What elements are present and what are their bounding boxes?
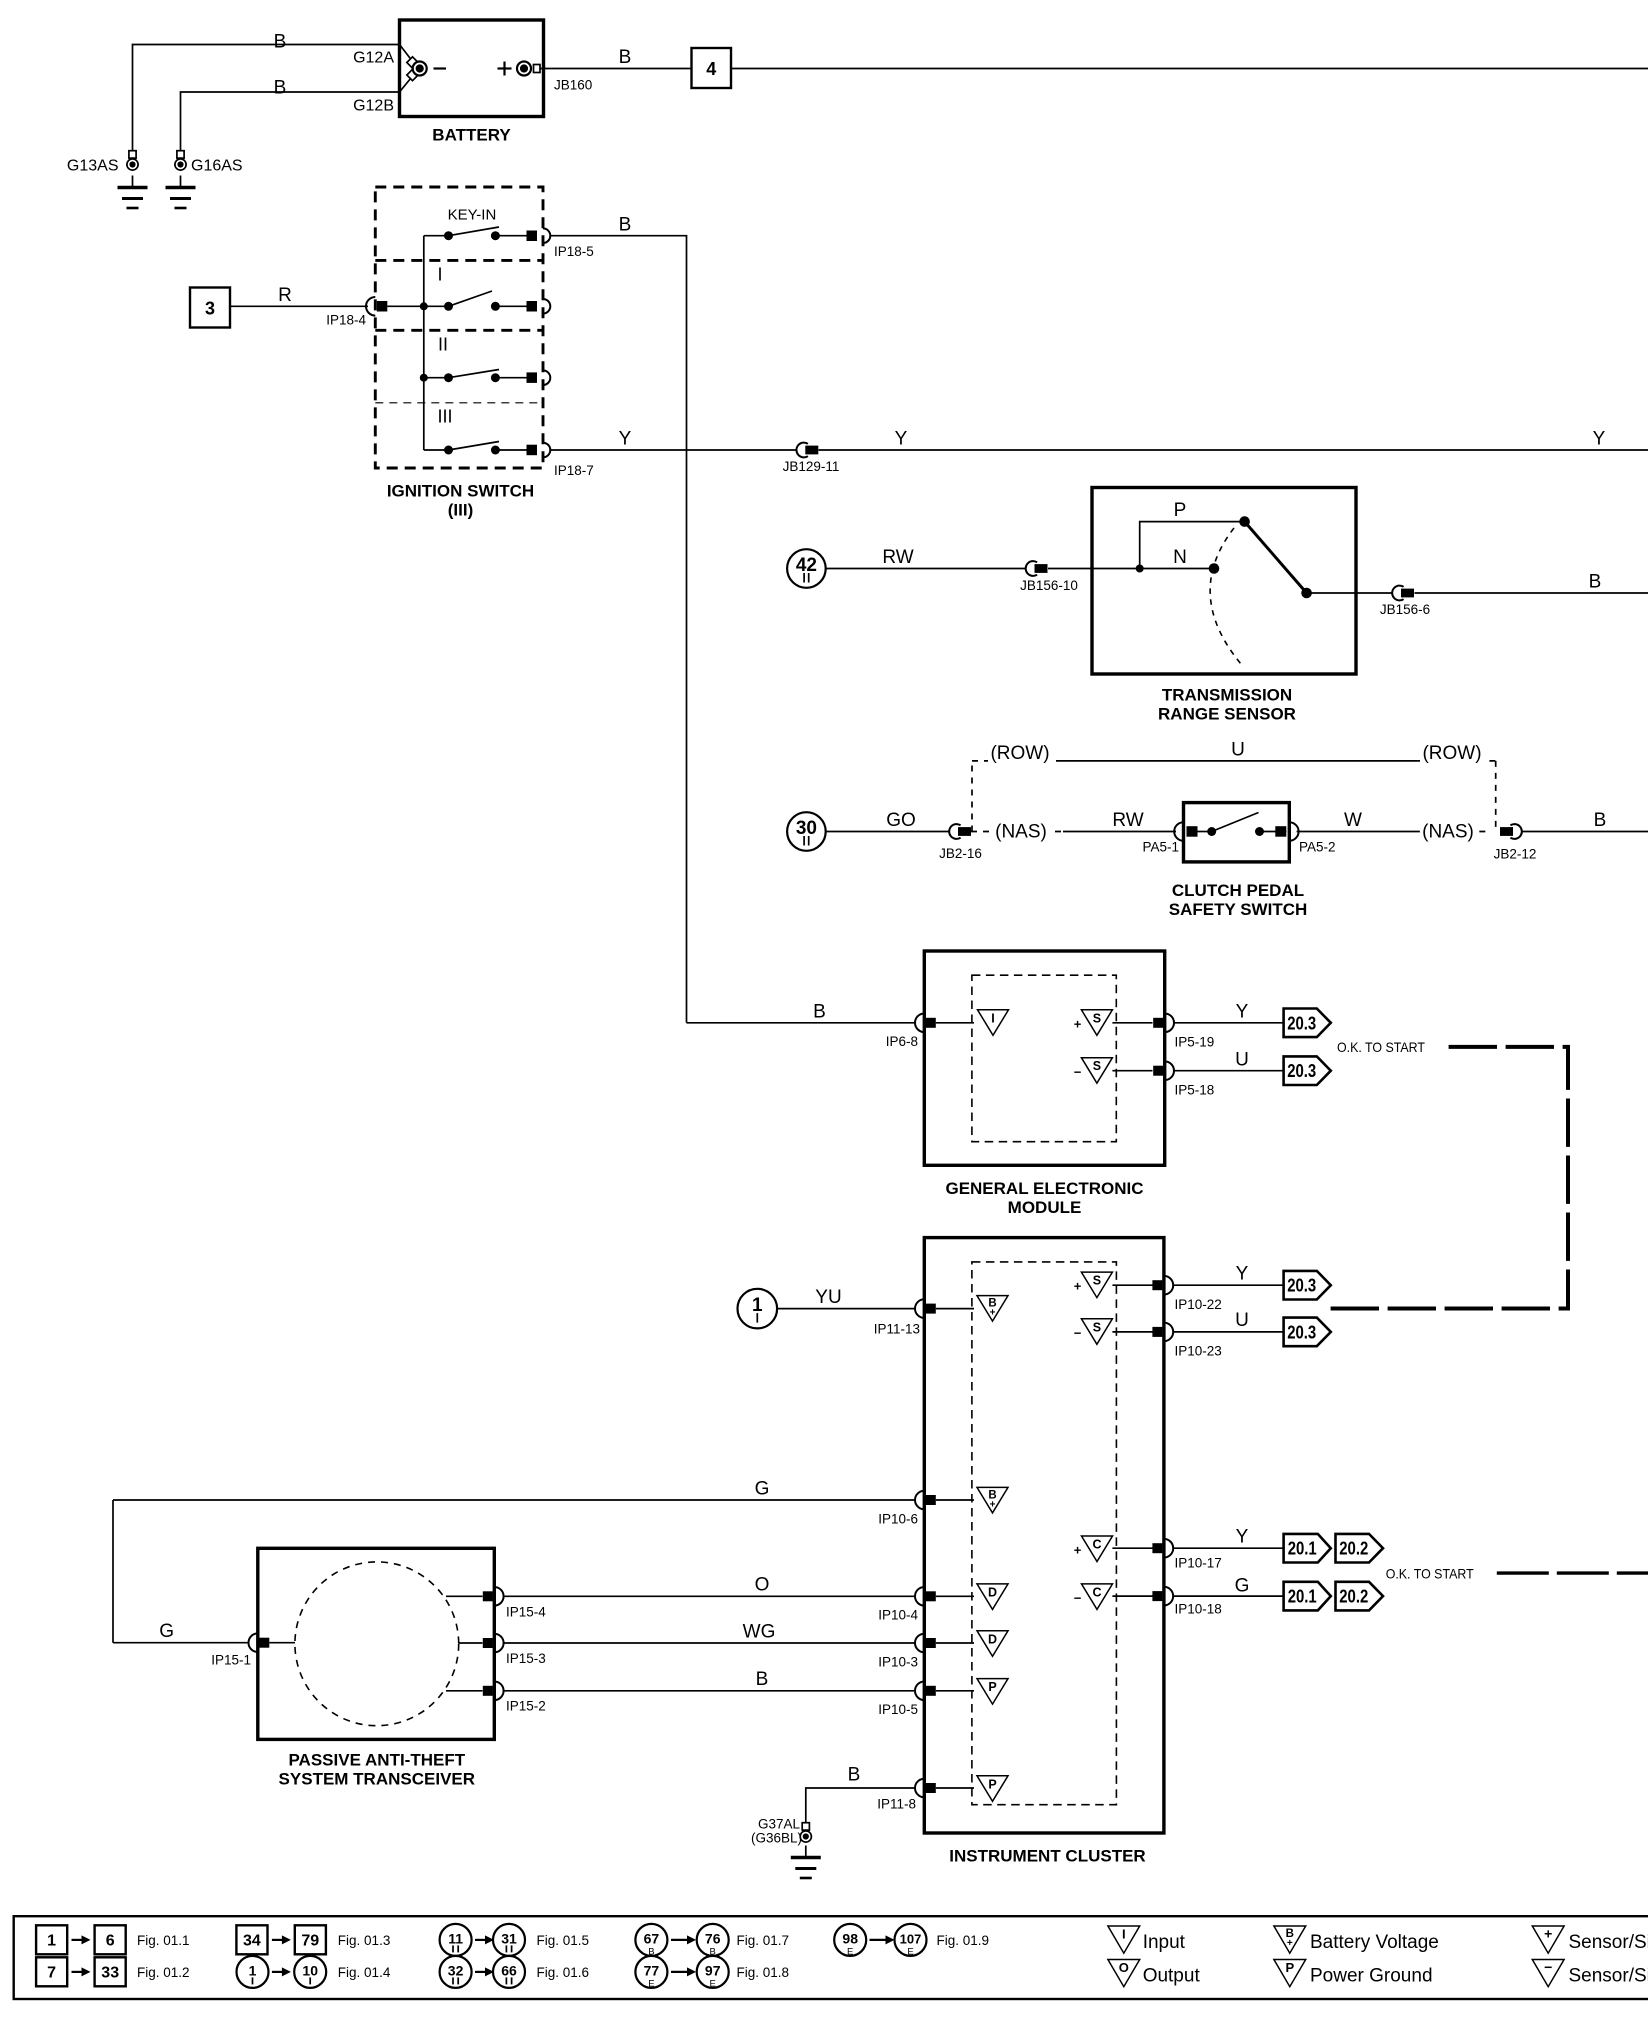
svg-text:JB129-11: JB129-11 [783, 459, 840, 474]
GEM sensor- wire [1112, 1070, 1152, 1072]
terminal IP10-3 [915, 1634, 924, 1653]
circuit ref circle 30 [787, 812, 826, 851]
off-page arrow 20.3 [1284, 1271, 1331, 1300]
svg-text:Fig. 01.2: Fig. 01.2 [137, 1965, 190, 1980]
wire Y JB129-11 to page edge [819, 449, 1648, 451]
svg-text:B: B [1589, 572, 1602, 593]
svg-text:BATTERY: BATTERY [432, 126, 511, 145]
cluster+ triangle C [1082, 1536, 1113, 1562]
svg-text:Input: Input [1143, 1932, 1186, 1953]
svg-text:YU: YU [815, 1287, 841, 1308]
IC C+ wire [1112, 1547, 1152, 1549]
battery negative lead G12A [400, 45, 414, 63]
svg-text:G12B: G12B [353, 98, 394, 115]
svg-text:+: + [1074, 1017, 1082, 1032]
svg-text:33: 33 [101, 1964, 119, 1981]
wire Y IP10-17 to 20.1 [1173, 1547, 1283, 1549]
svg-text:I: I [1122, 1927, 1126, 1942]
connector JB156-10 [1026, 561, 1037, 576]
svg-text:IP10-3: IP10-3 [878, 1655, 918, 1670]
contact P dot [1239, 516, 1250, 527]
svg-text:G: G [755, 1479, 770, 1500]
battery negative terminal [413, 62, 427, 76]
svg-text:JB2-12: JB2-12 [1494, 847, 1537, 862]
selector travel dashed arc [1210, 528, 1241, 664]
ground symbol G13AS [132, 176, 134, 188]
svg-text:34: 34 [243, 1932, 261, 1949]
legend arrow [475, 1939, 487, 1941]
svg-text:IP15-2: IP15-2 [506, 1699, 546, 1714]
svg-text:IP10-18: IP10-18 [1175, 1602, 1222, 1617]
svg-text:MODULE: MODULE [1008, 1198, 1082, 1217]
svg-text:E: E [847, 1946, 853, 1957]
svg-text:IP15-3: IP15-3 [506, 1651, 546, 1666]
circuit ref circle 42 [787, 549, 826, 588]
legend circle 31 [493, 1924, 525, 1956]
legend arrow [272, 1971, 284, 1973]
IC C- wire [1112, 1595, 1152, 1597]
svg-text:I: I [437, 265, 442, 285]
row II pole wire [495, 377, 531, 379]
connector box 3 [190, 288, 230, 328]
svg-text:(ROW): (ROW) [990, 743, 1049, 764]
row III pole wire [495, 449, 531, 451]
terminal PA5-1 [1174, 822, 1183, 841]
key-in switch wire [424, 235, 449, 237]
svg-text:R: R [278, 285, 292, 306]
battery voltage triangle B+ [977, 1487, 1008, 1513]
svg-text:+: + [1287, 1938, 1293, 1949]
battery negative lead G12B [400, 76, 414, 93]
data triangle D [977, 1631, 1008, 1657]
IC B+ wire [936, 1499, 974, 1501]
svg-text:GENERAL ELECTRONIC: GENERAL ELECTRONIC [945, 1179, 1143, 1198]
svg-text:6: 6 [106, 1932, 115, 1949]
terminal IP10-18 [1164, 1587, 1173, 1606]
ground ring G37AL [802, 1823, 809, 1830]
wire G IP10-18 to 20.1 [1173, 1595, 1283, 1597]
power ground triangle P [977, 1679, 1008, 1705]
off-page arrow 20.1 [1284, 1582, 1331, 1611]
svg-text:76: 76 [705, 1930, 721, 1946]
svg-text:IP15-4: IP15-4 [506, 1605, 546, 1620]
wire B battery negative to ground G16AS [181, 92, 400, 151]
svg-text:42: 42 [796, 555, 817, 576]
wire B ignition to GEM IP6-8 [687, 1022, 916, 1024]
row II contact dots [444, 373, 453, 382]
svg-text:RANGE SENSOR: RANGE SENSOR [1158, 705, 1296, 724]
row II terminal [527, 372, 538, 383]
svg-text:B: B [813, 1002, 826, 1023]
dashed ROW segment right [1417, 760, 1495, 762]
svg-text:79: 79 [301, 1932, 319, 1949]
power ground triangle P [977, 1776, 1008, 1802]
terminal IP15-4 [494, 1587, 503, 1606]
wire to N contact [1140, 568, 1214, 570]
svg-text:W: W [1344, 810, 1362, 831]
sensor- triangle S [1081, 1319, 1112, 1345]
wire RW JB156-10 into sensor [1048, 568, 1140, 570]
cluster- triangle C [1082, 1584, 1113, 1610]
svg-text:+: + [1544, 1926, 1552, 1942]
battery positive terminal [517, 62, 531, 76]
GEM inner dashed box [972, 975, 1116, 1141]
dashed O.K.-TO-START link [1330, 1047, 1568, 1309]
wire B IP15-2 to IP10-5 [503, 1690, 915, 1692]
svg-text:S: S [1093, 1274, 1101, 1288]
svg-text:C: C [1092, 1585, 1101, 1599]
wire Y IP5-19 to 20.3 [1174, 1022, 1284, 1024]
legend arrow [671, 1971, 689, 1973]
wire U bypass [1062, 760, 1417, 762]
svg-text:C: C [1092, 1538, 1101, 1552]
svg-text:E: E [648, 1978, 654, 1989]
clutch switch arm [1212, 813, 1259, 832]
terminal IP18-5 [527, 231, 538, 242]
dashed ROW segment left [972, 760, 1062, 762]
svg-text:WG: WG [743, 1622, 776, 1643]
svg-text:Fig. 01.6: Fig. 01.6 [537, 1965, 590, 1980]
svg-text:4: 4 [706, 59, 716, 79]
label (NAS) [993, 818, 1049, 842]
input triangle I [978, 1010, 1009, 1036]
svg-text:IP11-13: IP11-13 [874, 1322, 920, 1337]
svg-text:Y: Y [895, 429, 908, 450]
legend circle 1 [237, 1956, 269, 1988]
svg-text:G37AL: G37AL [758, 1817, 801, 1832]
svg-text:G16AS: G16AS [191, 158, 243, 175]
battery lead G12A lug [407, 57, 418, 68]
legend square 1 [36, 1925, 67, 1954]
ground symbol G37AL [805, 1846, 807, 1858]
key-in contact dots [444, 231, 453, 240]
svg-text:Y: Y [1593, 429, 1606, 450]
wire B JB156-6 to page edge [1415, 592, 1648, 594]
legend arrow [272, 1939, 284, 1941]
svg-text:U: U [1235, 1050, 1249, 1071]
dashed wire (NAS) left [971, 831, 1063, 833]
wire U IP5-18 to 20.3 [1174, 1070, 1284, 1072]
svg-text:B: B [274, 78, 287, 99]
svg-text:(NAS): (NAS) [995, 822, 1047, 843]
svg-text:IP5-18: IP5-18 [1175, 1083, 1215, 1098]
PATS transceiver box [258, 1548, 495, 1739]
wire B JB2-12 to page edge [1522, 831, 1648, 833]
ground ring G13AS [129, 151, 136, 158]
svg-text:P: P [988, 1777, 996, 1791]
svg-text:P: P [1285, 1960, 1294, 1975]
svg-text:IP10-17: IP10-17 [1175, 1556, 1222, 1571]
ignition switch dashed enclosure [375, 187, 543, 468]
legend arrow [72, 1939, 84, 1941]
svg-text:JB156-10: JB156-10 [1020, 578, 1078, 593]
terminal IP15-1 [248, 1633, 257, 1652]
svg-text:10: 10 [302, 1962, 318, 1978]
svg-text:IGNITION SWITCH: IGNITION SWITCH [387, 482, 534, 501]
row III contact dots [444, 446, 453, 455]
svg-text:+: + [1074, 1543, 1082, 1558]
svg-text:1: 1 [47, 1932, 56, 1949]
IC sensor- wire [1112, 1331, 1152, 1333]
wire from sensor to JB156-6 [1307, 592, 1392, 594]
svg-text:P: P [1174, 500, 1187, 521]
terminal IP15-3 [494, 1634, 503, 1653]
svg-text:B: B [274, 32, 287, 53]
svg-text:S: S [1093, 1320, 1101, 1334]
wire Y IP18-7 to JB129-11 [550, 449, 796, 451]
svg-text:20.3: 20.3 [1287, 1013, 1316, 1033]
row I bus junction [420, 302, 428, 310]
svg-text:S: S [1093, 1059, 1101, 1073]
svg-text:11: 11 [448, 1930, 463, 1946]
svg-text:B: B [848, 1765, 861, 1786]
legend arrow [72, 1971, 84, 1973]
battery B1 [400, 20, 544, 117]
svg-text:Fig. 01.9: Fig. 01.9 [937, 1933, 990, 1948]
svg-text:IP10-4: IP10-4 [878, 1608, 918, 1623]
label (NAS) right [1420, 818, 1476, 842]
terminal IP11-13 [915, 1299, 924, 1318]
svg-text:U: U [1235, 1310, 1249, 1331]
svg-text:Y: Y [1236, 1002, 1249, 1023]
svg-text:Sensor/Signal +: Sensor/Signal + [1569, 1932, 1648, 1953]
row II wire [424, 377, 449, 379]
row I wire [387, 305, 448, 307]
sensor+ triangle S [1081, 1010, 1112, 1036]
svg-text:−: − [1074, 1065, 1082, 1080]
instrument cluster box [924, 1238, 1164, 1833]
svg-text:IP10-22: IP10-22 [1175, 1297, 1222, 1312]
label (ROW) left [988, 742, 1052, 764]
svg-text:O.K. TO START: O.K. TO START [1386, 1566, 1474, 1582]
row I contact dots [444, 302, 453, 311]
selector arm [1245, 522, 1307, 593]
wire G PATS to IP10-6 [113, 1499, 915, 1501]
svg-text:S: S [1093, 1011, 1101, 1025]
svg-text:IP10-6: IP10-6 [878, 1512, 918, 1527]
wire G to IP15-1 [113, 1642, 249, 1644]
svg-text:Fig. 01.1: Fig. 01.1 [137, 1933, 190, 1948]
legend arrow [475, 1971, 487, 1973]
legend arrow [671, 1939, 689, 1941]
wire G riser PATS [112, 1500, 114, 1643]
svg-text:IP15-1: IP15-1 [211, 1653, 251, 1668]
svg-text:KEY-IN: KEY-IN [448, 207, 497, 224]
wire to P contact [1140, 522, 1245, 569]
IC P wire [936, 1690, 974, 1692]
svg-text:E: E [710, 1978, 716, 1989]
svg-text:PASSIVE ANTI-THEFT: PASSIVE ANTI-THEFT [288, 1751, 465, 1770]
legend circle 32 [440, 1956, 472, 1988]
terminal IP6-8 [915, 1014, 924, 1033]
GEM input wire [936, 1022, 974, 1024]
transmission range sensor box [1092, 488, 1356, 675]
row I pole wire [495, 305, 531, 307]
battery lead G12B lug [407, 69, 418, 80]
svg-text:Fig. 01.7: Fig. 01.7 [737, 1933, 790, 1948]
off-page arrow 20.3 [1284, 1056, 1331, 1085]
svg-text:B: B [756, 1669, 769, 1690]
key-in pole wire [495, 235, 531, 237]
svg-text:(ROW): (ROW) [1422, 743, 1481, 764]
legend circle 11 [440, 1924, 472, 1956]
svg-text:IP18-5: IP18-5 [554, 244, 594, 259]
svg-text:SYSTEM TRANSCEIVER: SYSTEM TRANSCEIVER [279, 1770, 475, 1789]
svg-text:IP18-7: IP18-7 [554, 463, 594, 478]
legend sensor- triangle [1532, 1960, 1564, 1987]
svg-text:D: D [988, 1585, 997, 1599]
off-page arrow 20.3 [1284, 1318, 1331, 1347]
svg-text:G13AS: G13AS [67, 158, 119, 175]
svg-text:1: 1 [752, 1295, 763, 1316]
svg-text:III: III [437, 407, 452, 427]
legend square 33 [95, 1957, 126, 1986]
svg-text:PA5-1: PA5-1 [1142, 840, 1179, 855]
svg-text:SAFETY SWITCH: SAFETY SWITCH [1169, 900, 1308, 919]
PATS wire IP15-1 to coil [269, 1642, 295, 1644]
legend bar frame [14, 1916, 1648, 1999]
dashed wire (NAS) right [1419, 831, 1489, 833]
svg-text:(NAS): (NAS) [1422, 822, 1474, 843]
svg-text:97: 97 [705, 1962, 721, 1978]
legend output triangle [1108, 1960, 1140, 1987]
ignition switch divider 2 [375, 329, 543, 332]
IC D wire [936, 1642, 974, 1644]
wire B ground G37AL to IP11-8 [806, 1788, 915, 1823]
svg-text:Battery Voltage: Battery Voltage [1310, 1932, 1439, 1953]
svg-text:O: O [1119, 1960, 1129, 1975]
row I switch arm (open) [449, 291, 493, 306]
key-in switch arm [449, 227, 500, 236]
svg-text:+: + [1074, 1279, 1082, 1294]
wire RW to clutch switch [1063, 831, 1176, 833]
svg-text:E: E [907, 1946, 913, 1957]
clutch switch wire R [1260, 831, 1287, 833]
legend square 34 [236, 1925, 267, 1954]
legend circle 67 [635, 1924, 667, 1956]
svg-text:O.K. TO START: O.K. TO START [1337, 1039, 1425, 1055]
IC sensor+ wire [1112, 1284, 1152, 1286]
connector JB2-12 [1510, 824, 1521, 839]
ignition switch divider 3 (thin) [375, 402, 543, 404]
svg-text:RW: RW [882, 547, 913, 568]
row III wire [424, 449, 449, 451]
terminal IP18-7 [527, 445, 538, 456]
svg-text:−: − [1074, 1326, 1082, 1341]
connector JB129-11 [796, 443, 807, 458]
svg-text:20.3: 20.3 [1287, 1322, 1316, 1342]
clutch contact dots [1207, 827, 1216, 836]
svg-text:(G36BL): (G36BL) [751, 1831, 802, 1846]
svg-text:−: − [1074, 1591, 1082, 1606]
IC inner dashed box [972, 1262, 1117, 1805]
svg-text:G: G [159, 1621, 174, 1642]
IC D wire [936, 1595, 974, 1597]
svg-text:Power Ground: Power Ground [1310, 1966, 1433, 1987]
battery plus sign [498, 67, 512, 69]
svg-text:Fig. 01.8: Fig. 01.8 [737, 1965, 790, 1980]
svg-text:IP6-8: IP6-8 [886, 1034, 918, 1049]
svg-text:B: B [619, 47, 632, 68]
svg-text:20.3: 20.3 [1287, 1276, 1316, 1296]
legend square 6 [95, 1925, 126, 1954]
row II switch arm [449, 370, 500, 378]
svg-text:JB160: JB160 [554, 78, 592, 93]
svg-text:20.1: 20.1 [1288, 1587, 1317, 1607]
svg-text:IP10-5: IP10-5 [878, 1702, 918, 1717]
svg-text:Output: Output [1143, 1966, 1201, 1987]
ground symbol G16AS [180, 176, 182, 188]
battery voltage triangle B+ [977, 1296, 1008, 1322]
terminal IP15-2 [494, 1682, 503, 1701]
selector pivot dot [1301, 588, 1312, 599]
svg-text:RW: RW [1112, 810, 1143, 831]
svg-text:20.2: 20.2 [1339, 1539, 1368, 1559]
wire WG IP15-3 to IP10-3 [503, 1642, 915, 1644]
PATS wire coil to IP15-4 [446, 1595, 483, 1597]
svg-text:INSTRUMENT CLUSTER: INSTRUMENT CLUSTER [949, 1847, 1145, 1866]
svg-text:32: 32 [448, 1962, 464, 1978]
svg-text:P: P [988, 1680, 996, 1694]
wire O IP15-4 to IP10-4 [503, 1595, 915, 1597]
off-page arrow 20.2 [1336, 1582, 1384, 1611]
wire B connector 4 to page edge [731, 68, 1648, 70]
row II bus junction [420, 374, 428, 382]
svg-text:+: + [990, 1308, 996, 1319]
svg-text:(III): (III) [448, 501, 474, 520]
svg-text:IP11-8: IP11-8 [877, 1797, 916, 1812]
svg-text:IP18-4: IP18-4 [326, 313, 366, 328]
wire W clutch to (NAS) [1297, 831, 1420, 833]
svg-text:G: G [1235, 1576, 1250, 1597]
PATS wire coil to IP15-3 [459, 1642, 483, 1644]
sensor+ triangle S [1081, 1272, 1112, 1298]
svg-text:30: 30 [796, 818, 817, 839]
dashed ROW bypass riser left [971, 761, 973, 832]
data triangle D [977, 1584, 1008, 1610]
svg-text:D: D [988, 1632, 997, 1646]
off-page arrow 20.3 [1284, 1009, 1331, 1038]
circuit ref circle 1 [738, 1289, 778, 1329]
svg-text:N: N [1173, 547, 1187, 568]
terminal IP10-17 [1164, 1539, 1173, 1558]
terminal IP10-23 [1164, 1323, 1173, 1342]
svg-text:Fig. 01.3: Fig. 01.3 [338, 1933, 391, 1948]
svg-text:77: 77 [644, 1962, 660, 1978]
svg-text:7: 7 [47, 1964, 56, 1981]
svg-text:JB2-16: JB2-16 [939, 846, 982, 861]
svg-text:Sensor/Signal −: Sensor/Signal − [1569, 1966, 1648, 1987]
svg-text:O: O [755, 1575, 770, 1596]
terminal IP10-6 [915, 1491, 924, 1510]
legend input triangle [1108, 1926, 1140, 1953]
dashed ROW bypass riser right [1495, 761, 1497, 832]
ignition switch common bus [423, 236, 425, 450]
legend circle 77 [635, 1956, 667, 1988]
svg-text:GO: GO [886, 810, 916, 831]
svg-text:TRANSMISSION: TRANSMISSION [1162, 686, 1292, 705]
legend circle 10 [294, 1956, 326, 1988]
wire GO circle30 to JB2-16 [826, 831, 949, 833]
battery positive post JB160 square [534, 65, 541, 73]
contact N dot [1209, 563, 1220, 574]
svg-text:107: 107 [900, 1931, 922, 1946]
svg-text:CLUTCH PEDAL: CLUTCH PEDAL [1172, 881, 1304, 900]
svg-text:Fig. 01.4: Fig. 01.4 [338, 1965, 391, 1980]
terminal IP10-5 [915, 1682, 924, 1701]
terminal PA5-2 [1275, 826, 1286, 837]
svg-text:3: 3 [205, 299, 215, 319]
